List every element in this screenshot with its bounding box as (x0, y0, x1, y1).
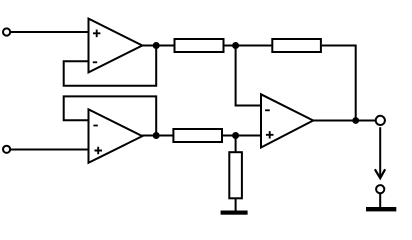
wire U3 output (312, 120, 375, 122)
node B junction (232, 132, 239, 139)
wire IN1 to U1 noninverting input (10, 31, 89, 33)
U2 plus label (95, 147, 103, 154)
node A junction (232, 42, 239, 49)
U1 minus label (93, 61, 97, 63)
ground G1 (221, 211, 248, 215)
voltage arrow head (375, 169, 385, 178)
U2 minus label (93, 125, 97, 127)
output terminal OUT1 (376, 116, 385, 125)
resistor R2 (272, 39, 321, 52)
op-amp U3 (261, 94, 313, 147)
wire R4 to ground (235, 198, 237, 211)
resistor R3 (173, 129, 222, 142)
input terminal IN2 (3, 146, 10, 153)
ground G2 (366, 207, 396, 211)
junction J2 (153, 132, 160, 139)
resistor R4 (229, 152, 242, 198)
wire node A to R2 (236, 45, 273, 47)
wire U2 output (142, 135, 173, 137)
wire U1 output (142, 45, 174, 47)
U3 plus label (266, 131, 274, 138)
input terminal IN1 (3, 28, 10, 35)
U2 feedback wire (64, 96, 157, 135)
junction J1 (153, 42, 160, 49)
op-amp U1 (89, 19, 143, 73)
wire IN2 to U2 noninverting input (10, 149, 89, 151)
U1 plus label (93, 30, 100, 37)
voltage arrow shaft (379, 127, 381, 177)
wire R3 to node B (223, 135, 236, 137)
wire R2 to output node J3 (322, 46, 356, 121)
junction J3 (352, 117, 359, 124)
wire node A to U3 inverting input (236, 46, 261, 106)
wire OUT2 to ground (379, 193, 381, 207)
wire node B to U3 noninverting input (236, 135, 261, 137)
output terminal OUT2 (376, 185, 384, 193)
U3 minus label (265, 109, 270, 111)
U1 feedback wire (64, 46, 157, 86)
wire R1 to node A (225, 45, 236, 47)
op-amp U2 (89, 109, 143, 162)
wire node B to R4 (235, 136, 237, 153)
resistor R1 (175, 39, 224, 52)
